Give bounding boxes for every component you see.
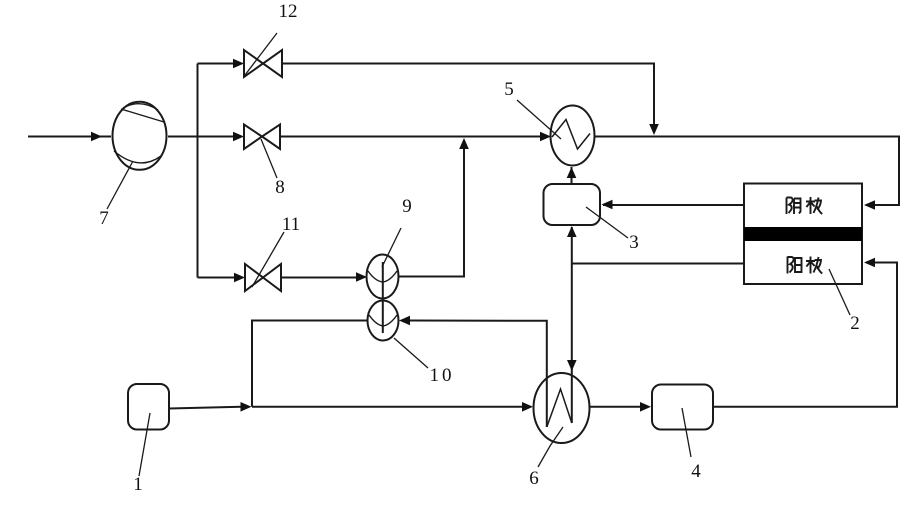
arrow down into HX6 — [567, 360, 577, 371]
wire junction up into separator 3 — [571, 227, 573, 264]
heat exchanger 6 — [534, 340, 590, 443]
arrow into HX6 left — [522, 402, 533, 412]
leader label 5 — [517, 100, 561, 139]
wire inlet line — [28, 136, 111, 138]
svg-text:11: 11 — [282, 214, 300, 235]
wire HX5 to cathode inlet — [595, 137, 900, 206]
arrow into separator 3 bottom — [567, 226, 577, 237]
arrow into separator 3 — [602, 200, 613, 210]
wire anode out line — [572, 263, 744, 265]
leader label 2 — [829, 269, 850, 315]
svg-text:12: 12 — [279, 1, 298, 22]
leader label 7 — [107, 161, 133, 209]
arrow before HX5 — [540, 132, 551, 142]
fuel cell stack 2 — [744, 184, 862, 285]
wire valve 11 to ejector 9 — [281, 277, 357, 279]
valve V11 — [245, 264, 281, 291]
svg-text:1: 1 — [133, 474, 143, 495]
arrow drop onto main line — [649, 124, 659, 135]
wire ejector 9 out riser — [399, 140, 465, 277]
arrow riser joins main line — [459, 138, 469, 149]
label cathode (CJK drawn strokes) — [787, 197, 823, 214]
wire compressor to valve 8 — [168, 136, 233, 138]
separator 3 — [544, 184, 601, 225]
ejector 9 — [367, 255, 399, 299]
arrow into tank 4 — [640, 402, 651, 412]
leader label 4 — [682, 408, 691, 457]
leader label 8 — [261, 139, 277, 178]
wire cathode out to separator 3 — [603, 204, 744, 206]
arrow into HX5 bottom — [567, 167, 577, 178]
label anode (CJK drawn strokes) — [788, 257, 823, 274]
leader label 3 — [586, 207, 628, 238]
tank 4 — [652, 385, 713, 430]
svg-text:10: 10 — [430, 365, 455, 386]
arrow into anode — [864, 258, 875, 268]
wire HX6 riser to ejector 10 — [410, 321, 547, 341]
wire tank 4 to anode inlet — [713, 263, 897, 407]
svg-text:6: 6 — [529, 468, 539, 489]
wire junction down to HX6 — [571, 264, 573, 424]
leader label 10 — [394, 338, 428, 368]
arrow inlet flow — [91, 132, 102, 142]
leader label 12 — [245, 33, 277, 75]
leader label 6 — [538, 427, 563, 467]
wire trunk vertical left — [197, 64, 199, 278]
wire HX6 to tank 4 — [590, 406, 641, 408]
wire trunk to valve 11 — [198, 277, 235, 279]
arrow before valve 12 — [233, 59, 244, 69]
wire top branch to valve 12 — [198, 63, 234, 65]
svg-text:7: 7 — [99, 208, 109, 229]
arrow at junction — [241, 402, 252, 412]
svg-text:8: 8 — [275, 177, 285, 198]
wire valve 8 to HX5 — [280, 136, 541, 138]
arrow before valve 8 — [233, 132, 244, 142]
leader label 11 — [252, 232, 284, 287]
svg-text:3: 3 — [629, 232, 639, 253]
arrow before valve 11 — [234, 273, 245, 283]
valve V12 — [244, 50, 282, 77]
compressor 7 — [113, 102, 167, 170]
wire junction to HX6 — [252, 406, 522, 408]
wire valve 12 to drop — [282, 64, 654, 131]
ejector 10 — [368, 301, 399, 341]
leader label 1 — [139, 413, 150, 476]
wire tank 1 outlet — [169, 407, 241, 409]
svg-text:9: 9 — [402, 196, 412, 217]
arrow into cathode — [864, 200, 875, 210]
heat exchanger 5 — [551, 106, 595, 166]
svg-text:5: 5 — [504, 79, 514, 100]
svg-text:2: 2 — [850, 313, 860, 334]
arrow before ejector 9 — [356, 272, 367, 282]
wire separator 3 to HX5 — [571, 167, 573, 184]
tank 1 — [128, 384, 169, 430]
valve V8 — [244, 125, 280, 150]
arrow into ejector 10 — [399, 316, 410, 326]
leader label 9 — [382, 228, 401, 267]
wire ejector 10 out drop — [252, 321, 368, 407]
wire shaft between 9 and 10 — [382, 262, 384, 333]
svg-text:4: 4 — [691, 461, 701, 482]
